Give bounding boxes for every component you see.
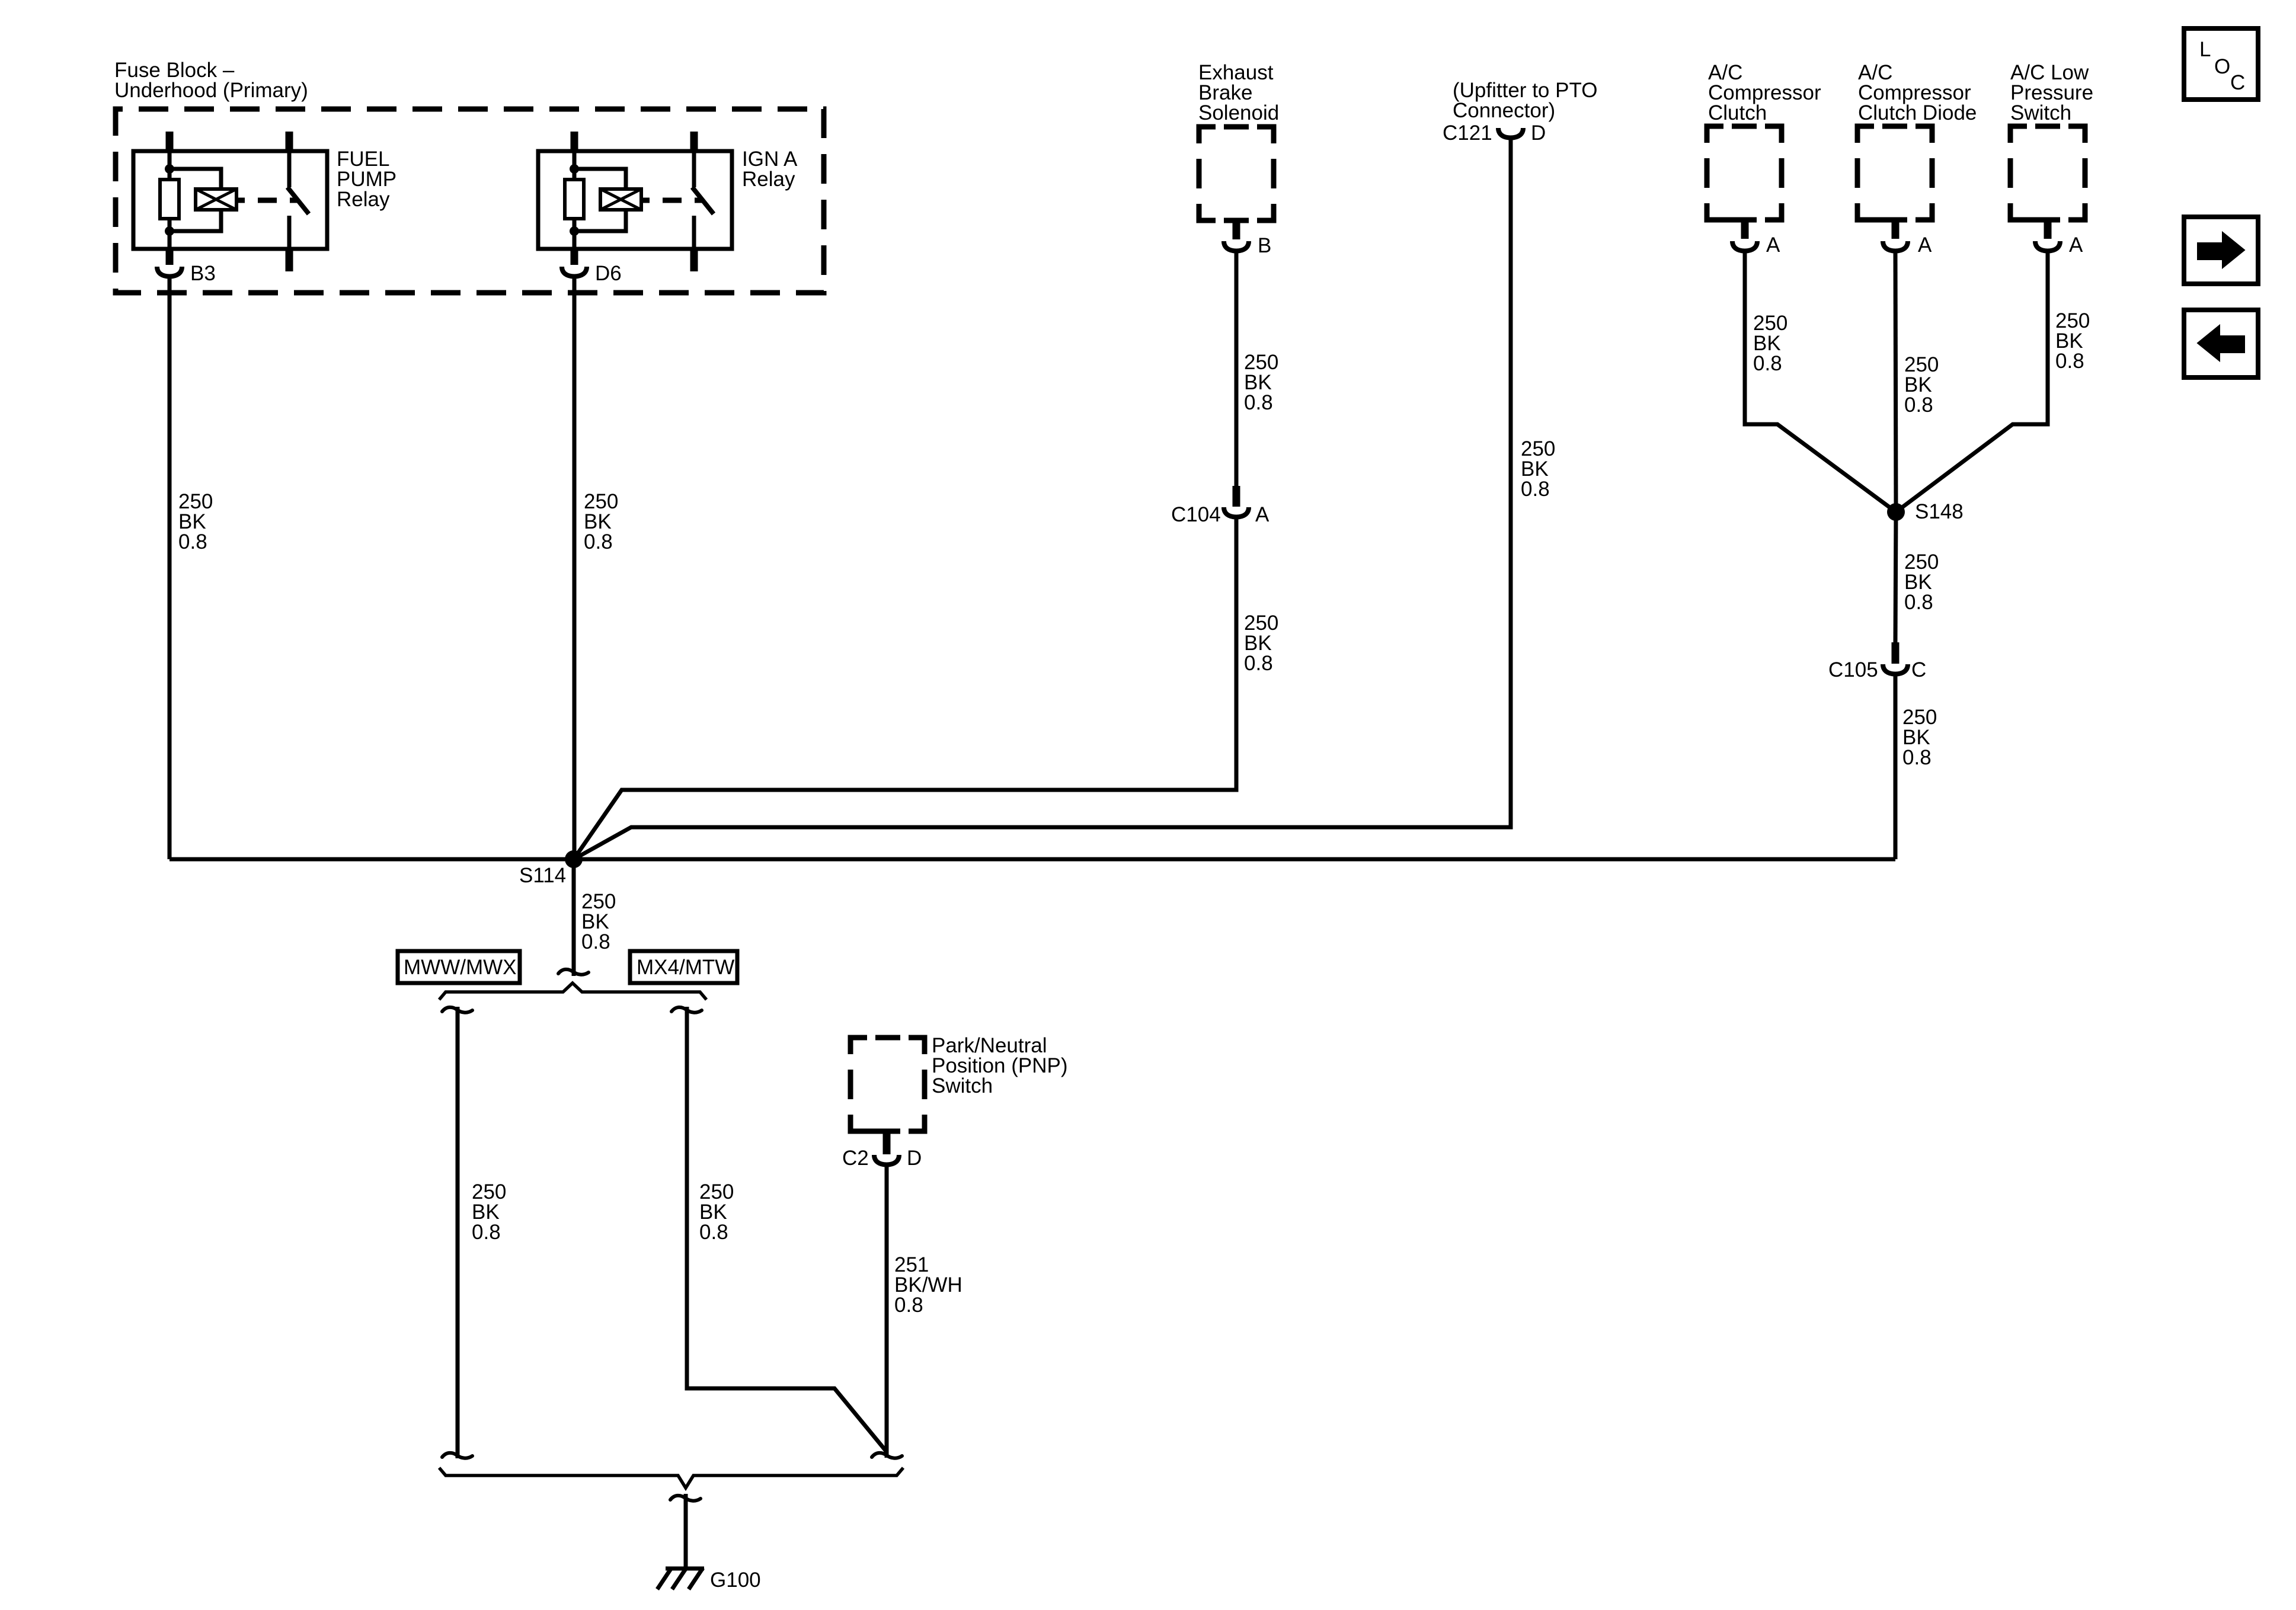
svg-text:G100: G100 [710, 1569, 761, 1592]
LOC legend box [2184, 28, 2258, 100]
svg-text:B3: B3 [190, 262, 216, 285]
svg-text:C121: C121 [1443, 121, 1492, 145]
A/C compressor clutch diode label [1858, 61, 1977, 124]
IGN A relay switch blade [692, 187, 714, 214]
svg-text:Solenoid: Solenoid [1198, 101, 1279, 124]
svg-text:D6: D6 [595, 262, 622, 285]
svg-text:Clutch: Clutch [1708, 101, 1767, 124]
svg-text:MX4/MTW: MX4/MTW [637, 956, 734, 979]
wire C105 to ground bus [1894, 674, 1898, 859]
FUEL PUMP relay switch pin wire [287, 151, 292, 187]
wire B3 to ground bus (vertical) [168, 276, 172, 859]
fuse block underhood dashed box [116, 109, 824, 293]
svg-text:0.8: 0.8 [2055, 350, 2084, 373]
IGN A relay switch fixed contact [692, 216, 696, 249]
wire break squiggle MWW branch bottom [442, 1453, 472, 1458]
inline connector C105 stub [1892, 642, 1900, 664]
A/C compressor clutch label [1708, 61, 1821, 124]
svg-text:0.8: 0.8 [894, 1294, 923, 1317]
connector terminal A arc (low pressure switch) [2035, 241, 2060, 251]
FUEL PUMP relay pin stub top-left (pin to B3 coil) [166, 132, 174, 153]
svg-text:0.8: 0.8 [1244, 391, 1273, 414]
A/C low pressure switch pin stub [2044, 220, 2052, 239]
park/neutral position switch dashed box [850, 1038, 925, 1131]
connector terminal A arc (diode) [1883, 241, 1908, 251]
svg-text:0.8: 0.8 [1753, 352, 1782, 375]
svg-text:Connector): Connector) [1453, 99, 1555, 122]
wire S148 to C105 [1895, 512, 1896, 642]
FUEL PUMP relay pin stub bottom-right [286, 249, 293, 271]
wire C104 to S114 (vertical, corner, horizontal, diagonal) [574, 517, 1236, 859]
wire label 250 BK 0.8 (B3 wire) [178, 490, 213, 553]
svg-text:C2: C2 [842, 1147, 869, 1170]
FUEL PUMP relay wire resistor to lower node [168, 219, 172, 249]
IGN A relay coil branch wire lower [574, 210, 626, 231]
svg-text:C: C [1911, 658, 1926, 681]
svg-text:A: A [1918, 233, 1932, 257]
wire label 250 BK 0.8 (S148 to C105) [1904, 550, 1939, 614]
inline connector C104 arc [1224, 507, 1249, 517]
svg-text:D: D [907, 1147, 922, 1170]
IGN A relay internal node dot lower [570, 226, 579, 236]
IGN A relay actuator dashed link [663, 198, 682, 203]
exhaust brake solenoid pin stub [1233, 220, 1240, 239]
FUEL PUMP relay name label [337, 148, 396, 211]
IGN A relay pin stub top-right [690, 132, 698, 153]
wire label 250 BK 0.8 (C105 to bus) [1902, 706, 1937, 769]
wire break squiggle MWW branch top [442, 1007, 472, 1013]
svg-text:D: D [1531, 121, 1546, 145]
wire S114 down to harness split [572, 859, 576, 976]
svg-text:S148: S148 [1915, 500, 1964, 523]
wire label 250 BK 0.8 (C121 wire) [1521, 437, 1555, 501]
wire break squiggle below S114 [558, 969, 589, 975]
wire label 250 BK 0.8 (MWW branch) [472, 1180, 506, 1244]
IGN A relay pin stub bottom-left (to D6) [571, 249, 578, 265]
svg-text:0.8: 0.8 [1904, 393, 1933, 417]
splice S114 junction dot [565, 850, 583, 868]
svg-text:C104: C104 [1171, 503, 1221, 526]
svg-text:O: O [2214, 55, 2230, 78]
svg-text:S114: S114 [519, 864, 566, 887]
park/neutral position switch label [932, 1034, 1068, 1097]
relay K1 FUEL PUMP: outer box [133, 151, 327, 249]
legend arrow box (right arrow) [2184, 217, 2258, 284]
ground bus horizontal wire [170, 857, 1895, 862]
wire MX4/MTW branch (vertical, corner, diagonal) [687, 1007, 887, 1452]
wire C121 to S114 (vertical, corner, horizontal, diagonal) [574, 137, 1511, 859]
IGN A relay actuator tick at blade [695, 198, 702, 203]
IGN A relay wire resistor to lower node [573, 219, 577, 249]
A/C compressor clutch dashed box [1707, 126, 1782, 220]
legend arrow box (left arrow) [2184, 310, 2258, 377]
connector terminal B3 arc [157, 267, 182, 277]
svg-text:A: A [2069, 233, 2083, 257]
wire solenoid B to C104 [1235, 251, 1239, 486]
svg-text:Switch: Switch [2010, 101, 2071, 124]
svg-text:0.8: 0.8 [178, 530, 207, 553]
splice S148 junction dot [1887, 503, 1905, 521]
wire label 250 BK 0.8 (clutch wire) [1753, 312, 1787, 375]
FUEL PUMP relay wire pin1 to resistor [168, 151, 172, 180]
svg-text:Relay: Relay [742, 168, 795, 191]
svg-text:0.8: 0.8 [472, 1221, 501, 1244]
svg-text:0.8: 0.8 [584, 530, 613, 553]
IGN A relay coil (box with X) [600, 189, 641, 210]
wire low pressure switch A to S148 [1896, 251, 2048, 512]
svg-text:Relay: Relay [337, 188, 390, 211]
connector C121 arc [1498, 128, 1523, 138]
FUEL PUMP relay actuator tick at blade [290, 198, 298, 203]
wire label 250 BK 0.8 (MX4 branch) [699, 1180, 734, 1244]
IGN A relay pin stub bottom-right [690, 249, 698, 271]
IGN A relay coil branch wire upper [574, 169, 626, 189]
wire MWW/MWX branch (vertical) [456, 1007, 460, 1458]
connector C2 arc [874, 1155, 899, 1165]
FUEL PUMP relay coil (box with X) [196, 189, 236, 210]
relay K2 IGN A: outer box [538, 151, 732, 249]
wire label 250 BK 0.8 (diode wire) [1904, 353, 1939, 417]
svg-text:A: A [1766, 233, 1780, 257]
svg-text:MWW/MWX: MWW/MWX [404, 956, 516, 979]
A/C low pressure switch label [2010, 61, 2093, 124]
inline connector C105 arc [1883, 664, 1908, 674]
IGN A relay wire pin1 to resistor [573, 151, 577, 180]
FUEL PUMP relay coil branch wire lower [170, 210, 221, 231]
svg-text:C105: C105 [1828, 658, 1878, 681]
IGN A relay internal node dot upper [570, 164, 579, 174]
svg-text:0.8: 0.8 [1521, 478, 1550, 501]
wire label 250 BK 0.8 (D6 wire) [584, 490, 618, 553]
wire C2 D to ground brace [885, 1164, 889, 1458]
upfitter to PTO connector label [1453, 79, 1597, 122]
fuse block label [114, 59, 308, 102]
wire label 251 BK/WH 0.8 [894, 1253, 962, 1317]
FUEL PUMP relay actuator dashed link [258, 198, 277, 203]
wire label 250 BK 0.8 (below S114) [581, 890, 616, 953]
FUEL PUMP relay switch blade [287, 187, 309, 214]
FUEL PUMP relay internal node dot lower [165, 226, 174, 236]
IGN A relay switch pin wire [692, 151, 696, 187]
FUEL PUMP relay coil branch wire upper [170, 169, 221, 189]
FUEL PUMP relay switch fixed contact [287, 216, 292, 249]
svg-text:B: B [1258, 234, 1271, 257]
svg-text:A: A [1255, 503, 1269, 526]
FUEL PUMP relay internal node dot upper [165, 164, 174, 174]
A/C compressor clutch diode dashed box [1857, 126, 1932, 220]
svg-text:0.8: 0.8 [699, 1221, 728, 1244]
wire break squiggle MX4 branch top [671, 1007, 702, 1013]
wire to G100 ground [684, 1494, 688, 1568]
IGN A relay coil actuator stub [641, 198, 650, 203]
wire clutch A to S148 [1745, 251, 1896, 512]
svg-text:Switch: Switch [932, 1074, 993, 1097]
svg-text:Clutch Diode: Clutch Diode [1858, 101, 1977, 124]
svg-text:0.8: 0.8 [1904, 591, 1933, 614]
svg-text:Underhood (Primary): Underhood (Primary) [114, 79, 308, 102]
harness code box MX4/MTW [630, 951, 737, 983]
PNP switch pin stub [883, 1131, 891, 1154]
IGN A relay resistor [565, 180, 584, 219]
svg-text:0.8: 0.8 [1244, 652, 1273, 675]
harness split brace (upper) [439, 983, 706, 1000]
inline connector C104 stub [1233, 486, 1240, 507]
svg-text:C: C [2230, 71, 2245, 94]
connector terminal A arc (clutch) [1732, 241, 1757, 251]
wire label 250 BK 0.8 (low pressure switch wire) [2055, 309, 2090, 373]
FUEL PUMP relay coil actuator stub [236, 198, 245, 203]
svg-text:L: L [2199, 38, 2211, 61]
connector terminal D6 arc [562, 267, 587, 277]
FUEL PUMP relay pin stub bottom-left (to B3) [166, 249, 174, 265]
IGN A relay name label [742, 148, 798, 191]
A/C compressor clutch pin stub [1741, 220, 1749, 239]
A/C clutch diode pin stub [1892, 220, 1900, 239]
harness code box MWW/MWX [398, 951, 520, 983]
svg-text:0.8: 0.8 [1902, 746, 1932, 769]
A/C low pressure switch dashed box [2010, 126, 2085, 220]
FUEL PUMP relay resistor [160, 180, 179, 219]
wire label 250 BK 0.8 (solenoid wire) [1244, 351, 1278, 414]
ground symbol G100 [657, 1568, 704, 1589]
IGN A relay pin stub top-left [571, 132, 578, 153]
wire break squiggle at C2 wire bottom [872, 1453, 902, 1458]
wire break squiggle above G100 [670, 1496, 701, 1501]
wire D6 to S114 (vertical) [573, 276, 577, 859]
connector terminal B arc (solenoid) [1224, 241, 1249, 251]
wire diode A to S148 [1895, 251, 1896, 512]
FUEL PUMP relay pin stub top-right (switch pin) [286, 132, 293, 153]
exhaust brake solenoid dashed box [1199, 127, 1274, 220]
ground collector brace (lower) [439, 1468, 903, 1488]
wire label 250 BK 0.8 (C104 to S114) [1244, 612, 1278, 675]
svg-text:0.8: 0.8 [581, 930, 610, 953]
exhaust brake solenoid label [1198, 61, 1279, 124]
